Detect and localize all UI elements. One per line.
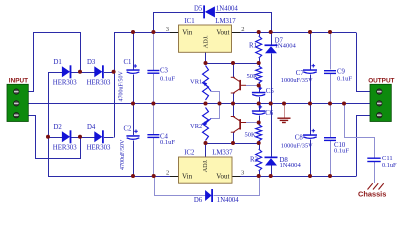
node chassis branch junction [342,102,346,106]
svg-text:1000uF/35V: 1000uF/35V [281,143,313,150]
svg-text:R1: R1 [249,42,257,49]
svg-text:1N4004: 1N4004 [275,42,297,49]
node R2-50K junction [257,141,261,145]
wire IC2 ADJ rail [205,143,207,157]
node Q1 collector junction [231,61,235,65]
connector J2 OUTPUT [370,84,391,121]
wire +out rail [241,32,357,34]
capacitor C3 [147,70,159,71]
VR2 wiper arrow [205,119,211,124]
svg-text:D3: D3 [87,59,96,66]
svg-text:2: 2 [241,26,244,33]
wire D6 bottom loop [155,177,206,196]
capacitor C4 [147,134,159,135]
wire diode row 1 [48,72,62,74]
wire C5 leads [259,86,261,92]
node C1 top junction [131,30,135,34]
svg-text:Vout: Vout [216,172,229,180]
svg-text:HER303: HER303 [53,79,77,86]
diode D6 [205,190,212,201]
node earth ground junction [282,102,286,106]
wire mid ground rail [28,103,370,105]
resistor R2 [256,149,262,171]
wire input pin1 to top-left rail [29,33,81,92]
node Q1 base junction [257,84,261,88]
pin stub IC1 Vin [170,32,179,34]
transistor Q2 [231,117,246,133]
capacitor C1 [126,69,139,71]
wire 50K lower leads [259,123,261,125]
svg-text:C2: C2 [124,126,133,133]
wire IC1 ADJ rail [205,52,207,63]
op-amp IC1 regulator LM317 [179,25,232,52]
wire D7 leads [271,32,273,44]
wire input pin3 to D2/D4 junction [29,116,81,159]
wire R1 leads [259,32,261,36]
diode D5 [205,6,215,17]
svg-text:2: 2 [166,170,169,177]
node C3 top junction [151,30,155,34]
diode D7 [265,44,278,46]
svg-text:VR1: VR1 [190,78,202,85]
wire R2 leads [259,143,261,149]
node D3 cathode junction [112,70,116,74]
svg-text:C6: C6 [265,110,274,117]
node C4-D6 junction [152,174,156,178]
svg-text:Chassis: Chassis [358,189,386,198]
wire Q1 base lead [246,85,259,87]
node C10 bottom junction [328,174,332,178]
potentiometer VR1 [203,66,209,101]
node C9 top junction [328,30,332,34]
node VR1-VR2 ground junction [204,102,208,106]
diode D2 [62,131,70,142]
capacitor C5 [252,92,266,94]
svg-text:D5: D5 [194,6,203,13]
node C7 top junction [308,30,312,34]
diode D3 [94,66,102,77]
svg-text:C8: C8 [295,135,304,142]
capacitor C10 [324,137,336,138]
svg-text:IC2: IC2 [184,149,195,156]
wire VR1 wiper [211,92,220,104]
potentiometer VR2 [203,108,209,141]
svg-text:HER303: HER303 [53,144,77,151]
potentiometer 50K lower body [256,125,262,142]
node Q2 base junction [257,121,261,125]
svg-text:R2: R2 [250,157,259,164]
op-amp IC2 regulator LM337 [179,157,233,183]
node C9-C10 ground junction [328,102,332,106]
node C5-C6 ground junction [257,102,261,106]
diode D1 [62,66,70,77]
wire VR2 wiper [211,104,220,119]
wire 50K upper leads [259,63,261,66]
wire negative raw net vertical [49,73,171,177]
node R1-50K junction [257,61,261,65]
svg-text:INPUT: INPUT [9,78,28,85]
node D2 anode junction [46,135,50,139]
svg-text:OUTPUT: OUTPUT [368,78,394,85]
wire Q1 collector/emitter stubs [233,63,235,77]
capacitor C9 [324,70,336,71]
wire Q2 base lead [246,122,259,124]
svg-text:1000uF/35V: 1000uF/35V [281,77,313,84]
wire C6 leads [259,104,261,111]
node Q2 emitter junction [231,141,235,145]
node R1 top junction [257,30,261,34]
diode D8 [265,157,278,159]
svg-text:0.1uF: 0.1uF [160,139,175,146]
svg-text:LM317: LM317 [215,18,236,25]
svg-text:D6: D6 [194,197,203,204]
wire C4 leads [153,104,155,135]
svg-text:0.1uF: 0.1uF [337,75,352,82]
resistor R1 [256,36,262,58]
node wiper ground junction [218,102,222,106]
svg-text:HER303: HER303 [87,79,111,86]
node C2 bottom junction [131,174,135,178]
wire C1 leads [133,32,135,69]
wire -out rail [241,176,357,178]
svg-text:D1: D1 [54,59,62,66]
node D7-D8 ground junction [269,102,273,106]
svg-text:C9: C9 [337,68,346,75]
wire chassis net to C11 [345,104,375,158]
svg-text:4700uF/50V: 4700uF/50V [119,70,125,101]
ground symbol [284,104,286,118]
svg-text:3: 3 [166,26,169,33]
svg-text:Vout: Vout [216,28,229,36]
capacitor C2 [126,135,139,137]
VR1 wiper arrow [205,84,211,91]
svg-text:4700uF/50V: 4700uF/50V [120,139,126,170]
svg-text:0.1uF: 0.1uF [334,147,349,154]
node D8 anode junction [269,174,273,178]
node C7-C8 ground junction [308,102,312,106]
svg-text:ADJ.: ADJ. [202,35,209,48]
node C1-C2 ground junction [131,102,135,106]
node D2-D4 junction [78,135,82,139]
svg-text:1N4004: 1N4004 [217,197,240,204]
svg-text:1N4004: 1N4004 [216,6,239,13]
pin stub IC2 Vin [170,176,179,178]
svg-text:C1: C1 [124,59,132,66]
wire D3/D4 cathodes to +raw rail [115,33,171,138]
svg-text:D2: D2 [54,124,63,131]
diode D4 [94,131,102,142]
node Q1-Q2 ground junction [231,102,235,106]
node C8 bottom junction [308,174,312,178]
svg-text:3: 3 [241,170,244,177]
wire C9 leads [330,32,332,70]
node R2 bottom junction [257,174,261,178]
chassis symbol [368,183,384,189]
svg-text:C3: C3 [160,68,169,75]
wire D8 leads [271,104,273,157]
wire C7 leads [310,32,312,69]
svg-text:50K: 50K [247,73,259,80]
capacitor C8 [303,134,317,136]
svg-text:D4: D4 [87,124,96,131]
node IC1 ADJ junction [204,61,208,65]
svg-text:Vin: Vin [182,172,193,180]
wire C2 leads [133,104,135,136]
svg-text:0.1uF: 0.1uF [160,75,175,82]
pin stub IC2 Vout [232,176,241,178]
svg-text:50K: 50K [245,132,257,139]
wire C3 leads [153,32,155,70]
node IC2 ADJ junction [204,141,208,145]
wire D5 top loop [154,13,204,33]
svg-text:Vin: Vin [182,28,193,36]
svg-text:VR2: VR2 [190,123,202,130]
potentiometer 50K upper body [256,66,262,83]
svg-text:0.1uF: 0.1uF [382,162,397,169]
node D1-D3 junction [78,70,82,74]
wire diode row 2 [48,137,62,139]
transistor Q1 [231,77,246,93]
svg-text:HER303: HER303 [87,144,111,151]
connector J1 INPUT [7,84,28,121]
wire C10 leads [330,104,332,138]
svg-text:C5: C5 [266,88,275,95]
capacitor C6 [252,110,266,112]
pin stub IC1 Vout [231,32,240,34]
wire rail to D1/D3 junction [80,32,82,72]
svg-text:ADJ.: ADJ. [202,159,209,172]
node C3-C4 ground junction [151,102,155,106]
node D7 cathode junction [269,30,273,34]
svg-text:LM337: LM337 [212,149,233,156]
svg-text:1N4004: 1N4004 [280,162,302,169]
capacitor C11 [367,158,380,159]
wire C8 leads [310,104,312,135]
capacitor C7 [303,69,317,71]
wire Q2 collector/emitter stubs [233,104,235,117]
svg-text:IC1: IC1 [184,18,194,25]
